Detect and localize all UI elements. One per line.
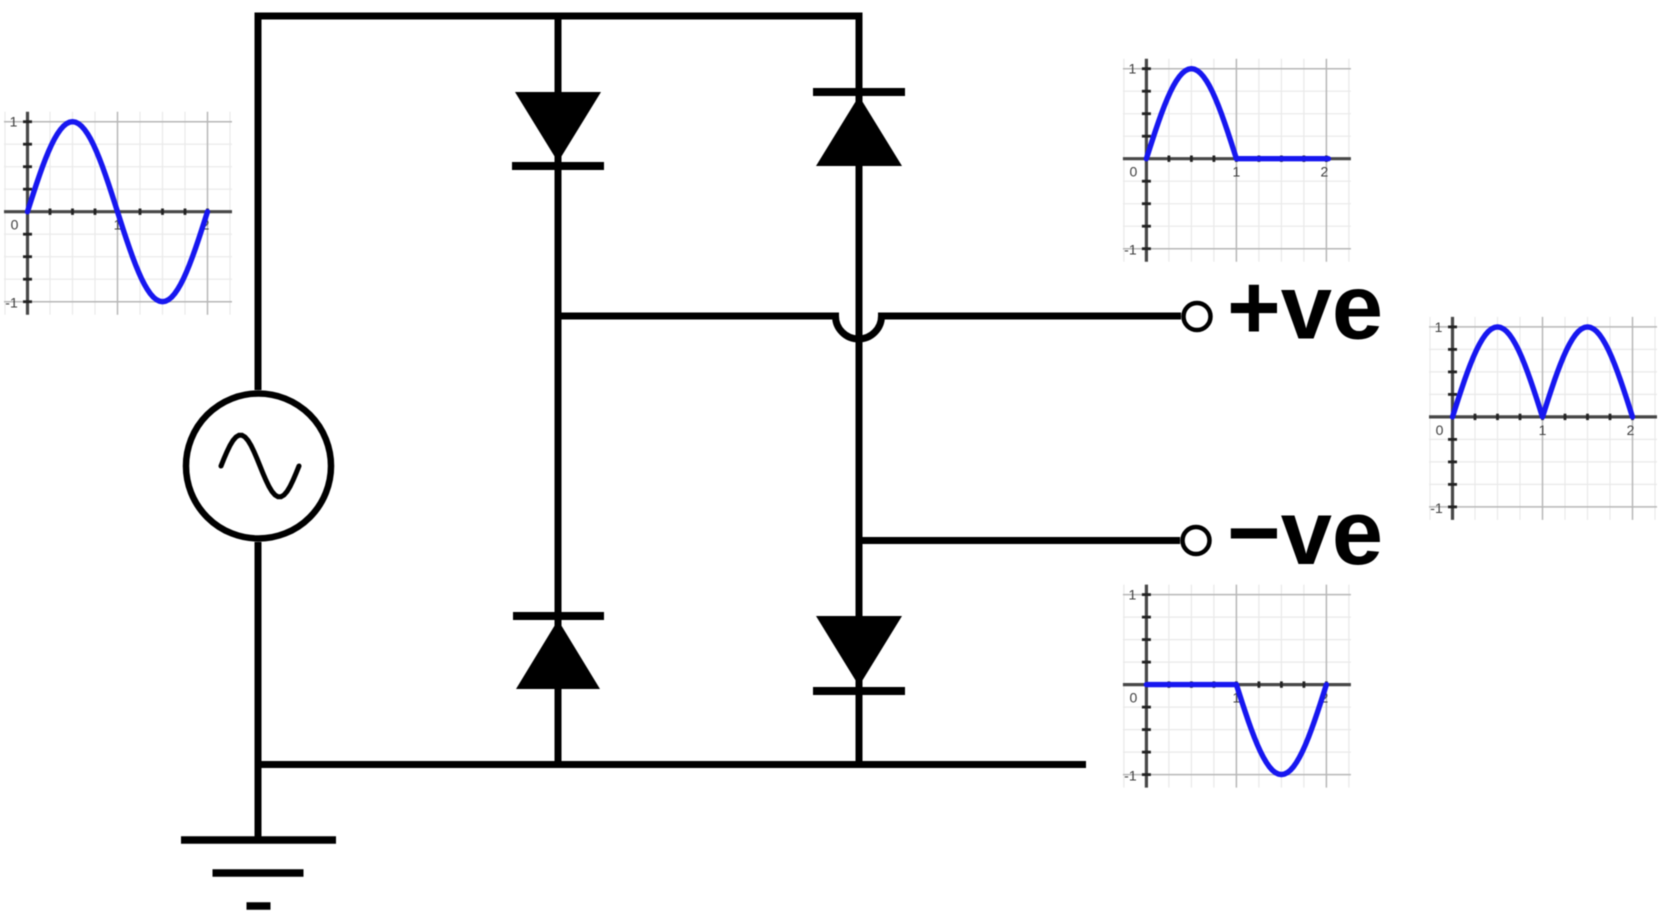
wire: bottom rail [258,761,1086,768]
input sine waveform plot blue curve [28,122,208,302]
positive half-wave output plot blue curve [1146,69,1328,159]
wire: left branch below source to bottom rail and ground [255,542,262,840]
ground symbol [181,840,336,906]
diode D3 bottom-left (cathode up) [513,612,604,689]
negative half-wave output plot blue curve [1146,685,1326,775]
wire: right branch vertical (through D2/D4) [856,92,863,764]
wire: -ve output from right branch [859,537,1180,544]
node +ve terminal [1184,303,1211,330]
diode D2 top-right (cathode up) [813,88,905,166]
positive half-wave output plot axes/grid [1123,59,1351,262]
full-wave rectified output plot axes/grid [1429,317,1657,520]
node -ve terminal [1183,527,1210,554]
wire: top rail from source to right branch [258,16,859,390]
negative half-wave output plot axes/grid [1123,585,1351,788]
wire: middle branch vertical (through D1/D3) [555,16,562,764]
input sine waveform plot axes/grid [4,112,232,315]
diode D1 top-left (cathode down) [512,92,604,170]
diode D4 bottom-right (cathode down) [813,616,905,695]
svg-text:−ve: −ve [1227,482,1383,584]
full-wave rectified output plot blue curve [1453,327,1633,417]
wire: +ve output with hop over right branch [558,316,1181,339]
svg-text:+ve: +ve [1227,257,1383,359]
AC source V1 [186,394,331,539]
